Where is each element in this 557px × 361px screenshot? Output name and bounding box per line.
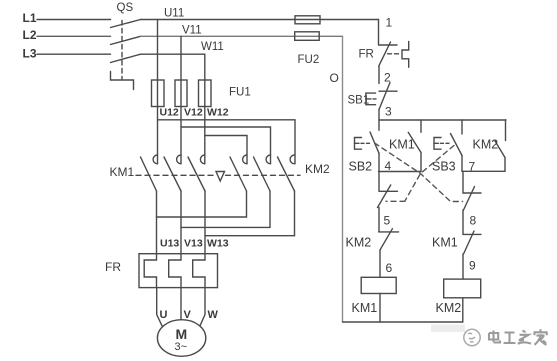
svg-text:L1: L1: [23, 11, 37, 25]
wire L1 to FU2 and node 1 corner: [141, 19, 379, 21]
motor M circle: [157, 320, 205, 357]
svg-text:QS: QS: [117, 2, 134, 14]
wire node3 rail: [379, 119, 506, 121]
wire L2 incoming: [37, 35, 111, 37]
relay FR heater box: [139, 254, 218, 288]
contactor KM1 main pole 1: [153, 155, 157, 164]
svg-text:7: 7: [469, 160, 476, 174]
contact KM1 NC interlock: [463, 233, 481, 235]
switch QS pole 2 blade: [111, 36, 141, 44]
wire node3 vertical: [378, 110, 380, 121]
relay FR heater element W: [193, 254, 205, 288]
wire node4 rail: [379, 171, 422, 173]
svg-text:KM2: KM2: [473, 138, 499, 152]
wire L2 to FU2 to O corner: [141, 35, 343, 37]
contact SB3 NC in KM1 branch: [378, 172, 380, 191]
svg-text:L2: L2: [23, 28, 37, 42]
svg-text:W11: W11: [201, 41, 224, 53]
button SB3 actuator: [434, 138, 441, 150]
interlock dashed SB2 link: [375, 143, 463, 202]
fuse FU2 lower box: [295, 32, 320, 41]
wire row W13: [205, 235, 295, 237]
svg-text:V11: V11: [182, 25, 202, 37]
contactor KM2 main pole 2: [266, 155, 270, 164]
button SB2 blade: [370, 132, 379, 153]
contact KM1 aux NO: [420, 120, 422, 132]
svg-text:9: 9: [469, 259, 476, 273]
button SB2 lower wire: [378, 153, 380, 171]
wire motor lead U: [157, 288, 162, 326]
contactor KM2 main pole 1: [243, 155, 247, 164]
svg-text:SB1: SB1: [348, 95, 370, 107]
svg-text:V13: V13: [184, 238, 203, 250]
wire W11 vertical: [204, 54, 206, 164]
fuse FU1 pole V box: [175, 80, 187, 107]
svg-text:O: O: [330, 71, 339, 85]
contact KM2 aux NO: [505, 120, 507, 141]
svg-text:6: 6: [386, 261, 393, 275]
contactor KM1 main pole 3: [200, 155, 204, 164]
svg-text:2: 2: [384, 71, 391, 85]
fuse FU1 pole U box: [152, 80, 165, 107]
wire node2 vertical: [378, 66, 380, 84]
interlock dashed SB3 link: [386, 146, 454, 202]
svg-text:KM1: KM1: [389, 138, 415, 152]
svg-text:KM2: KM2: [346, 236, 372, 250]
svg-text:KM1: KM1: [110, 165, 135, 179]
svg-text:FU2: FU2: [298, 54, 320, 66]
svg-text:FR: FR: [105, 260, 121, 274]
button SB1 blade: [379, 83, 390, 110]
wire L1 incoming: [37, 19, 111, 21]
wire V12 feed to KM2 middle: [181, 127, 271, 164]
contact FR actuator dashes: [388, 53, 402, 55]
relay FR heater element U: [144, 254, 156, 288]
button SB3 lower wire: [461, 156, 463, 172]
svg-text:KM2: KM2: [436, 301, 462, 315]
svg-text:3: 3: [385, 105, 392, 119]
contactor KM2 main pole 3: [290, 155, 294, 164]
button SB1 actuator: [366, 93, 376, 105]
switch QS handle step wire: [111, 72, 134, 90]
wire neutral O vertical: [342, 36, 344, 322]
svg-text:M: M: [176, 326, 188, 342]
svg-text:U: U: [160, 309, 168, 321]
wire L3 incoming: [37, 53, 111, 55]
wire node7 rail: [462, 170, 505, 172]
button SB3 blade: [451, 134, 463, 156]
button SB1 NC crossbar: [379, 90, 397, 92]
watermark text 电工之家: [489, 329, 548, 345]
wire U11 vertical: [157, 20, 159, 164]
svg-text:FU1: FU1: [229, 87, 251, 99]
svg-text:1: 1: [386, 16, 393, 30]
svg-text:8: 8: [470, 214, 477, 228]
svg-text:SB2: SB2: [349, 160, 373, 174]
switch QS pole 3 blade: [111, 54, 141, 62]
wire L3 to W11: [141, 53, 205, 55]
svg-text:SB3: SB3: [432, 160, 456, 174]
switch QS linkage dashed: [121, 21, 123, 80]
svg-text:3~: 3~: [175, 341, 188, 353]
contact FR heater symbol: [402, 42, 409, 68]
svg-text:L3: L3: [23, 47, 37, 61]
switch QS pole 1 blade: [111, 20, 141, 28]
svg-text:FR: FR: [359, 49, 374, 61]
contact FR NC blade: [379, 42, 391, 66]
fuse FU1 pole W box: [199, 80, 212, 107]
svg-text:U11: U11: [164, 8, 184, 20]
svg-text:5: 5: [384, 214, 391, 228]
svg-text:KM2: KM2: [305, 162, 330, 176]
fuse FU2 upper box: [295, 16, 320, 24]
svg-text:V12: V12: [184, 107, 203, 119]
control: wire node1 vertical: [378, 20, 380, 46]
button SB2 branch wire: [378, 120, 380, 130]
watermark logo circle: [464, 329, 480, 345]
svg-text:W12: W12: [207, 107, 229, 119]
coil KM2: [444, 279, 481, 298]
button SB2 actuator: [355, 138, 362, 150]
svg-text:4: 4: [385, 159, 392, 173]
contact FR NC crossbar: [379, 44, 397, 46]
svg-text:W13: W13: [207, 238, 229, 250]
wire W12 feed to KM2 left: [205, 136, 247, 164]
wire motor lead V: [180, 288, 182, 320]
contact KM2 NC interlock: [379, 231, 399, 233]
svg-text:W: W: [208, 309, 219, 321]
button SB3 branch wire: [461, 120, 463, 134]
svg-text:KM1: KM1: [352, 301, 378, 315]
coil KM1: [361, 277, 396, 293]
linkage dashed KM1-KM2: [136, 174, 215, 176]
wire V11 vertical: [180, 36, 182, 164]
wire row V13: [181, 226, 270, 228]
relay FR heater element V: [169, 254, 181, 288]
svg-text:U12: U12: [160, 107, 179, 119]
contactor KM1 main pole 2: [177, 155, 181, 164]
wire control bottom rail: [343, 321, 463, 323]
svg-text:U13: U13: [160, 238, 179, 250]
contact SB2 NC in KM2 branch: [462, 171, 464, 193]
wire motor lead W: [200, 288, 205, 326]
svg-text:V: V: [184, 309, 192, 321]
wire U12 feed to KM2 right: [158, 120, 296, 164]
svg-text:KM1: KM1: [432, 236, 458, 250]
watermark smear: [431, 325, 465, 333]
linkage triangle marker: [216, 172, 225, 182]
wire row U13: [157, 216, 247, 218]
